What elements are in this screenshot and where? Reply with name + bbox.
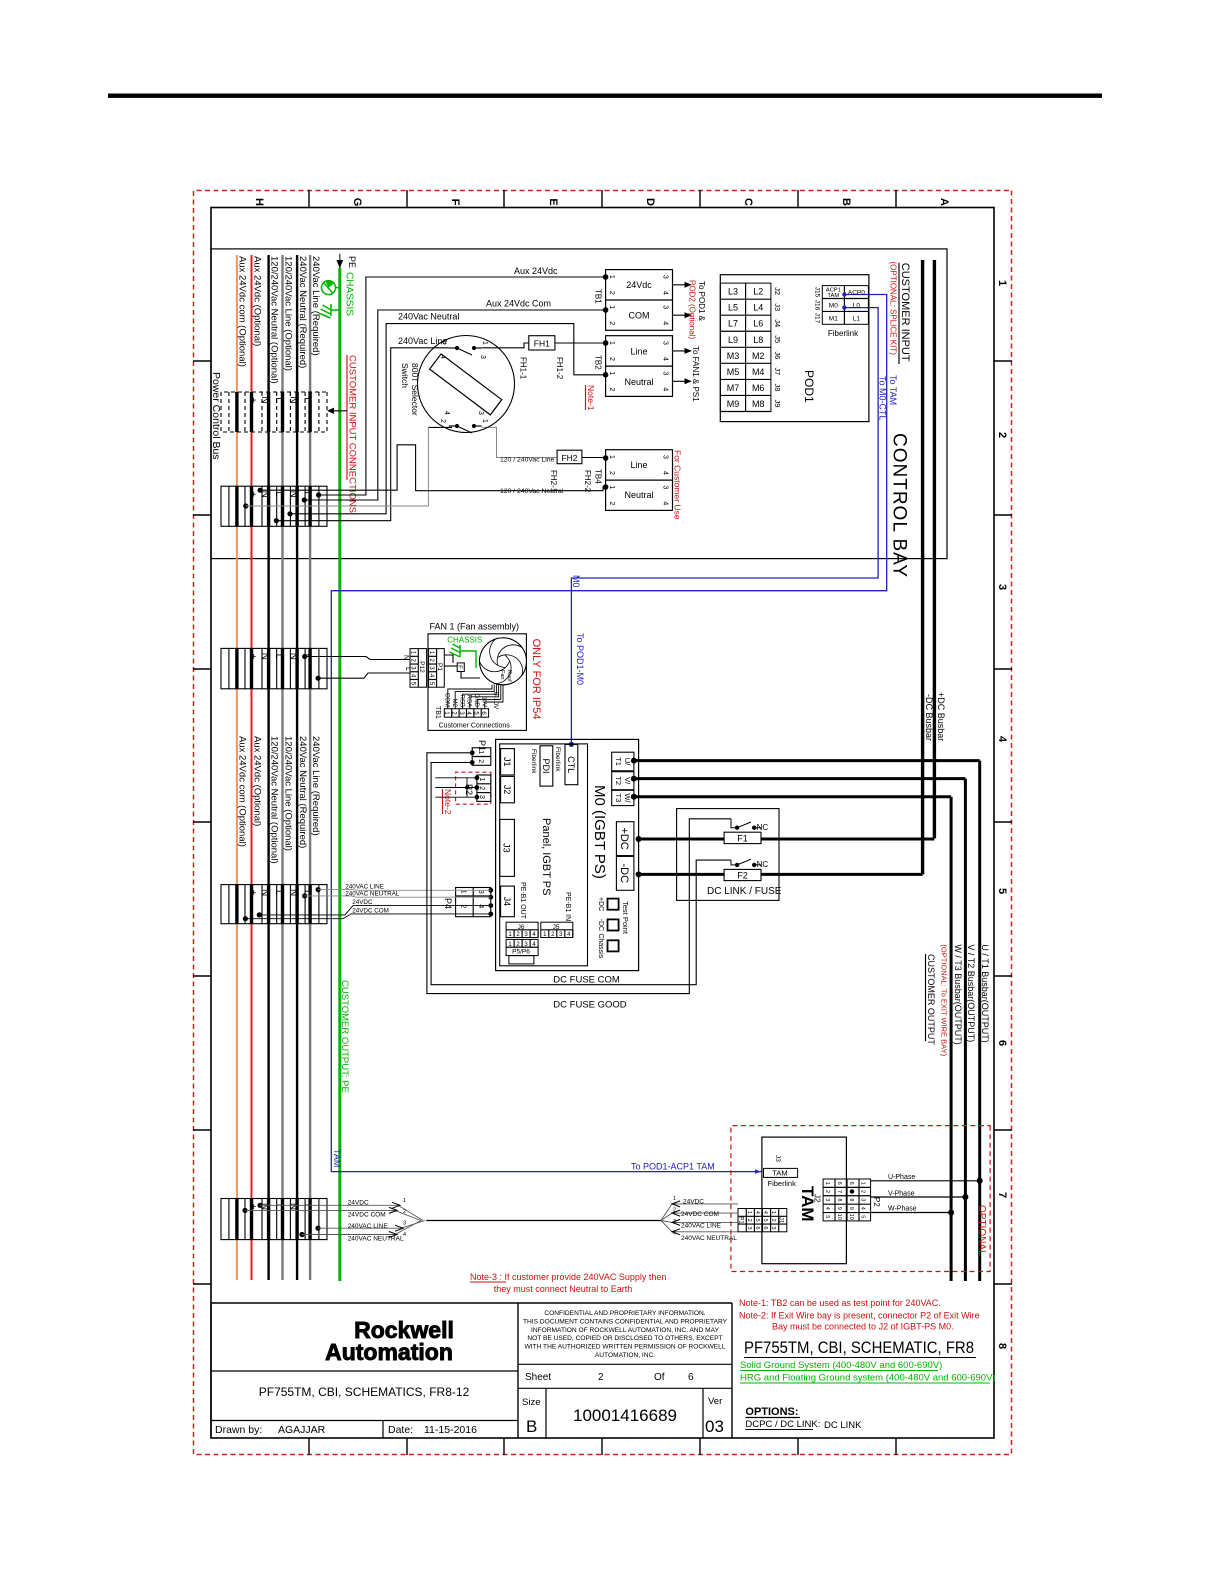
svg-text:0-10V: 0-10V: [492, 692, 499, 710]
svg-text:3: 3: [746, 1226, 752, 1229]
cable bundle wires from connector 5: [245, 1205, 425, 1234]
connector P4: [456, 888, 491, 917]
svg-text:Roof: Roof: [506, 670, 512, 682]
selector switch handle: [430, 354, 502, 415]
svg-text:Fiberlink: Fiberlink: [530, 749, 537, 774]
svg-text:24VDC COM: 24VDC COM: [352, 907, 389, 914]
connector block CB input taps: [221, 486, 327, 526]
sheet row: [518, 1363, 732, 1365]
svg-text:10: 10: [848, 1214, 854, 1220]
svg-text:Test Point: Test Point: [621, 901, 630, 935]
svg-text:INFORMATION OF ROCKWELL AUTOMA: INFORMATION OF ROCKWELL AUTOMATION, INC.…: [531, 1327, 720, 1334]
wire 240Vac Neutral to TB2: [290, 324, 606, 514]
connector block fan feed taps: [221, 648, 327, 688]
svg-text:B: B: [526, 1417, 537, 1436]
svg-text:J7: J7: [773, 367, 782, 375]
svg-text:M3: M3: [727, 351, 740, 361]
svg-text:3: 3: [662, 341, 669, 345]
fuse F1: [724, 832, 761, 843]
svg-text:4: 4: [754, 1211, 760, 1214]
connector J4: [501, 886, 515, 917]
svg-text:L4: L4: [753, 303, 763, 313]
POD1 ACP fiberlink table: [822, 286, 868, 325]
svg-text:4: 4: [477, 904, 484, 908]
zone ticks top/bottom: [994, 360, 1012, 362]
svg-text:2: 2: [824, 1190, 830, 1193]
connector PDI: [540, 746, 553, 786]
svg-text:7: 7: [996, 1192, 1008, 1198]
svg-text:Line: Line: [630, 347, 647, 357]
bus wire name labels (zone mid): [237, 736, 322, 864]
svg-text:1: 1: [770, 1211, 776, 1214]
wire 240Vac Line to switch to FH1 to TB2: [276, 348, 449, 521]
svg-text:240VAC NEUTRAL: 240VAC NEUTRAL: [348, 1235, 404, 1242]
svg-text:3: 3: [662, 305, 669, 309]
terminal block TB2: [606, 336, 673, 397]
svg-text:NC: NC: [757, 860, 769, 869]
svg-text:PE: PE: [347, 256, 357, 268]
svg-text:3: 3: [860, 1198, 866, 1201]
svg-text:3: 3: [477, 411, 484, 415]
P5/P6 pin table: [506, 939, 538, 947]
wire DC FUSE GOOD loop: [427, 753, 731, 994]
svg-text:J5: J5: [553, 924, 560, 931]
svg-text:CONFIDENTIAL AND PROPRIETARY I: CONFIDENTIAL AND PROPRIETARY INFORMATION…: [544, 1310, 705, 1317]
svg-text:2: 2: [608, 471, 615, 475]
svg-text:DC FUSE GOOD: DC FUSE GOOD: [553, 1000, 627, 1011]
svg-text:3: 3: [662, 371, 669, 375]
svg-text:2: 2: [996, 432, 1008, 438]
svg-text:J2: J2: [773, 287, 782, 295]
svg-text:2: 2: [439, 419, 446, 423]
svg-text:J2: J2: [813, 1194, 822, 1203]
NC aux contact F2: [731, 859, 761, 866]
P1/J1 pin table of TAM: [738, 1209, 787, 1232]
svg-text:240VAC LINE: 240VAC LINE: [681, 1223, 722, 1230]
svg-text:03: 03: [705, 1417, 724, 1436]
svg-text:TB2: TB2: [594, 355, 603, 370]
svg-text:FH1-2: FH1-2: [555, 357, 564, 380]
svg-text:ACP0: ACP0: [848, 290, 865, 297]
title block verticals: [517, 1303, 519, 1438]
svg-text:CONTROL BAY: CONTROL BAY: [889, 433, 910, 578]
svg-text:PE-B1 OUT: PE-B1 OUT: [519, 882, 526, 920]
svg-text:J6: J6: [518, 924, 525, 931]
svg-text:1: 1: [481, 419, 488, 423]
svg-text:J5: J5: [773, 335, 782, 343]
svg-text:Solid Ground System (400-480V: Solid Ground System (400-480V and 600-69…: [740, 1360, 942, 1371]
svg-text:Aux 24Vdc com (Optional): Aux 24Vdc com (Optional): [237, 736, 248, 847]
wire: 120/240Vac Line bus (gray): [281, 255, 283, 1280]
svg-text:P5/P6: P5/P6: [512, 949, 530, 956]
svg-text:L3: L3: [728, 287, 738, 297]
fuse holder FH2: [557, 450, 582, 464]
svg-text:4: 4: [662, 357, 669, 361]
svg-text:3: 3: [479, 355, 486, 359]
svg-text:To POD1-ACP1 TAM: To POD1-ACP1 TAM: [631, 1162, 715, 1172]
svg-text:J6: J6: [773, 351, 782, 359]
svg-text:6: 6: [996, 1040, 1008, 1046]
TAM box: [762, 1137, 847, 1264]
title block outer lines: [211, 1302, 732, 1304]
svg-text:2: 2: [746, 1219, 752, 1222]
svg-text:T2: T2: [614, 776, 623, 785]
svg-text:AUTOMATION, INC.: AUTOMATION, INC.: [595, 1352, 655, 1359]
svg-text:Date:: Date:: [388, 1424, 413, 1436]
svg-text:4: 4: [996, 736, 1008, 743]
svg-text:J15: J15: [814, 287, 821, 298]
svg-text:COM: COM: [629, 311, 650, 321]
svg-text:TAM: TAM: [827, 293, 839, 299]
svg-text:Of: Of: [654, 1372, 665, 1383]
svg-text:240VAC NEUTRAL: 240VAC NEUTRAL: [345, 891, 400, 898]
svg-text:120/240Vac Line (Optional): 120/240Vac Line (Optional): [283, 736, 294, 851]
svg-text:-DC: -DC: [618, 864, 630, 884]
test point squares +DC -DC Chassis: [608, 899, 619, 910]
fuse holder FH1: [529, 336, 555, 350]
svg-text:L2: L2: [753, 287, 763, 297]
svg-text:J16: J16: [814, 300, 821, 311]
svg-text:120/240Vac Neutral (Optional): 120/240Vac Neutral (Optional): [269, 736, 280, 864]
svg-text:L7: L7: [728, 319, 738, 329]
wire 120/240Vac Neutral to TB4: [260, 445, 606, 491]
svg-text:J9: J9: [773, 399, 782, 407]
svg-text:HRG and Floating Ground system: HRG and Floating Ground system (400-480V…: [740, 1373, 996, 1384]
svg-text:M0: M0: [571, 575, 581, 588]
svg-text:120 / 240Vac Line: 120 / 240Vac Line: [500, 457, 555, 464]
svg-text:3: 3: [770, 1226, 776, 1229]
svg-text:10001416689: 10001416689: [573, 1406, 677, 1425]
svg-text:F1: F1: [737, 834, 748, 844]
wire To M0-CTL (blue): [571, 308, 878, 745]
svg-text:V/: V/: [623, 777, 632, 785]
svg-text:4: 4: [662, 321, 669, 325]
svg-text:2: 2: [608, 291, 615, 295]
control bay enclosure box: [211, 249, 947, 559]
wire Aux 24Vdc Com to TB1-COM: [304, 310, 605, 500]
svg-text:1: 1: [608, 485, 615, 489]
svg-text:Note-1: TB2 can be used as tes: Note-1: TB2 can be used as test point fo…: [739, 1298, 941, 1308]
svg-text:Fiberlink: Fiberlink: [828, 329, 859, 338]
zone ticks left/right: [895, 190, 897, 208]
svg-text:8: 8: [836, 1198, 842, 1201]
connector P12/P1 strips: [410, 649, 427, 688]
svg-text:5: 5: [824, 1215, 830, 1218]
svg-text:TB1: TB1: [434, 706, 441, 719]
svg-text:3: 3: [824, 1198, 830, 1201]
terminal -DC: [616, 856, 634, 890]
svg-text:J1: J1: [778, 1217, 784, 1224]
svg-text:C: C: [742, 198, 754, 206]
svg-text:240VAC LINE: 240VAC LINE: [345, 884, 384, 891]
connector block TAM feed taps: [221, 1199, 327, 1240]
svg-text:120/240Vac Neutral (Optional): 120/240Vac Neutral (Optional): [269, 256, 280, 384]
svg-text:L: L: [404, 667, 411, 671]
svg-text:P1: P1: [436, 663, 443, 671]
output terminals U/T1 V/T2 W/T3: [612, 752, 634, 771]
svg-text:To M0-CTL: To M0-CTL: [878, 376, 888, 421]
svg-text:24VDC: 24VDC: [348, 1200, 369, 1207]
svg-text:Power Control Bus: Power Control Bus: [210, 372, 222, 460]
svg-text:PDI: PDI: [541, 758, 551, 773]
svg-text:Neutral: Neutral: [624, 377, 653, 387]
svg-text:+DC Busbar: +DC Busbar: [936, 692, 946, 741]
M0 IGBT PS outer box: [496, 739, 639, 970]
svg-text:240Vac Neutral (Required): 240Vac Neutral (Required): [297, 736, 308, 848]
svg-text:1: 1: [608, 371, 615, 375]
border: inner title frame: [211, 208, 994, 1439]
svg-text:J8: J8: [773, 383, 782, 391]
svg-text:3: 3: [673, 1219, 676, 1225]
svg-text:+DC: +DC: [618, 827, 630, 849]
svg-text:7: 7: [836, 1190, 842, 1193]
svg-text:L6: L6: [753, 319, 763, 329]
U/T1 busbar run: [634, 761, 980, 1281]
svg-text:CUSTOMER OUTPUT: PE: CUSTOMER OUTPUT: PE: [339, 980, 350, 1093]
connector P1 (M0 input): [472, 748, 491, 766]
svg-text:they must connect Neutral to E: they must connect Neutral to Earth: [494, 1284, 633, 1294]
svg-text:DC LINK: DC LINK: [824, 1420, 862, 1431]
svg-text:9: 9: [836, 1207, 842, 1210]
svg-text:CUSTOMER INPUT: CUSTOMER INPUT: [899, 263, 911, 362]
svg-text:Note-3 : If customer provide 2: Note-3 : If customer provide 240VAC Supp…: [470, 1272, 666, 1282]
svg-text:1: 1: [673, 1196, 676, 1202]
connector CTL: [565, 744, 578, 784]
+DC busbar: [933, 260, 936, 838]
svg-text:J3: J3: [773, 303, 782, 311]
svg-text:6: 6: [836, 1182, 842, 1185]
svg-text:Aux 24Vdc Com: Aux 24Vdc Com: [486, 299, 551, 309]
svg-text:J4: J4: [502, 897, 512, 907]
svg-text:1: 1: [403, 1198, 406, 1204]
svg-text:D: D: [644, 198, 656, 206]
svg-text:4: 4: [662, 291, 669, 295]
svg-text:COM: COM: [444, 693, 450, 707]
M0 inner panel box: [500, 744, 588, 966]
svg-text:DC FUSE COM: DC FUSE COM: [553, 975, 620, 986]
svg-text:-DC Busbar: -DC Busbar: [924, 694, 934, 741]
svg-text:To TAM: To TAM: [888, 375, 898, 405]
J2/P2 pin table of TAM: [823, 1179, 871, 1221]
svg-text:M0 (IGBT PS): M0 (IGBT PS): [591, 785, 608, 879]
svg-text:L1: L1: [853, 316, 861, 323]
-DC busbar: [921, 260, 924, 874]
svg-text:Bay must be connected to J2 of: Bay must be connected to J2 of IGBT-PS M…: [772, 1322, 954, 1332]
svg-text:1: 1: [608, 341, 615, 345]
page top rule line: [108, 94, 1102, 98]
svg-text:Chassis: Chassis: [597, 933, 604, 958]
svg-text:3: 3: [403, 1221, 406, 1227]
svg-text:To POD1 &: To POD1 &: [697, 281, 706, 322]
svg-text:Panel, IGBT PS: Panel, IGBT PS: [540, 818, 552, 895]
svg-text:M7: M7: [727, 383, 740, 393]
svg-text:Note-1: Note-1: [586, 385, 596, 411]
svg-text:Size: Size: [522, 1397, 540, 1408]
svg-text:POD1: POD1: [802, 370, 816, 403]
connector J3: [500, 819, 515, 876]
svg-text:2: 2: [477, 759, 484, 763]
svg-text:6: 6: [762, 1226, 768, 1229]
junction dots connector 4: [315, 887, 320, 892]
svg-text:GND: GND: [473, 694, 479, 708]
arrows out of TB1 / TB2 tops: [673, 284, 690, 286]
svg-text:For Customer Use: For Customer Use: [673, 450, 683, 520]
wires connector3 to fan P1: [305, 657, 410, 679]
svg-text:(OPTIONAL: To EXIT WIRE BAY): (OPTIONAL: To EXIT WIRE BAY): [940, 944, 949, 1056]
svg-text:DCPC / DC LINK:: DCPC / DC LINK:: [745, 1419, 820, 1430]
wire 120/240Vac Line from connector2 through switch FH2 to TB4: [428, 426, 452, 428]
svg-text:PF755TM, CBI, SCHEMATIC, FR8: PF755TM, CBI, SCHEMATIC, FR8: [744, 1339, 974, 1357]
svg-text:Neutral: Neutral: [624, 490, 653, 500]
svg-text:FH2: FH2: [561, 453, 577, 463]
svg-text:M1: M1: [829, 316, 838, 323]
svg-text:TB4: TB4: [594, 469, 603, 484]
svg-text:1: 1: [481, 341, 488, 345]
svg-text:B: B: [840, 198, 852, 206]
svg-text:+DC: +DC: [597, 897, 604, 911]
chevrons near TAM: [672, 1201, 680, 1235]
svg-text:FH2-2: FH2-2: [583, 470, 592, 493]
fan wires: [444, 655, 480, 678]
wire Aux 24Vdc to TB1-1: [319, 277, 606, 495]
svg-text:P2: P2: [872, 1197, 881, 1207]
svg-text:2: 2: [860, 1190, 866, 1193]
junction dots connector 5: [257, 1203, 262, 1208]
svg-text:4: 4: [824, 1207, 830, 1210]
svg-text:P4: P4: [443, 898, 453, 909]
fan fuse F: [457, 663, 464, 672]
svg-text:W/: W/: [623, 793, 632, 803]
wire: Aux 24Vdc com bus (orange): [236, 255, 238, 1280]
DC LINK / FUSE box: [677, 809, 779, 901]
svg-text:CTL: CTL: [566, 756, 576, 773]
svg-text:E: E: [547, 198, 559, 205]
svg-text:4: 4: [443, 411, 450, 415]
ver cell: [702, 1388, 704, 1438]
fan TB1 strip (customer connections): [444, 709, 488, 718]
svg-text:Fiberlink: Fiberlink: [554, 747, 561, 772]
svg-text:P1: P1: [738, 1216, 744, 1224]
phase wires U V W: [871, 1180, 978, 1182]
svg-text:CHASSIS: CHASSIS: [344, 272, 355, 316]
svg-text:L9: L9: [728, 335, 738, 345]
POD1 L/M jack table: [720, 283, 771, 411]
fan impeller symbol: [470, 628, 536, 690]
svg-text:FAN 1 (Fan assembly): FAN 1 (Fan assembly): [430, 622, 520, 632]
red dashed OPTIONAL enclosure: [731, 1126, 990, 1272]
svg-text:4: 4: [673, 1231, 676, 1237]
svg-text:6: 6: [688, 1372, 694, 1383]
svg-text:1: 1: [746, 1211, 752, 1214]
switch contacts left: [449, 346, 482, 355]
svg-text:Ver: Ver: [708, 1396, 722, 1407]
connector block P-bus dashed (customer input): [221, 392, 327, 432]
svg-text:F: F: [449, 199, 461, 206]
wires connector4 to P4: [305, 890, 491, 898]
POD1 enclosure: [720, 275, 869, 422]
svg-text:2: 2: [770, 1219, 776, 1222]
svg-text:Note-2: If Exit Wire bay is pr: Note-2: If Exit Wire bay is present, con…: [739, 1311, 980, 1321]
svg-text:M6: M6: [752, 383, 765, 393]
svg-text:G: G: [351, 198, 363, 207]
svg-text:F2: F2: [737, 871, 748, 881]
svg-text:240Vac Line: 240Vac Line: [398, 336, 447, 346]
svg-text:Aux 24Vdc (Optional): Aux 24Vdc (Optional): [252, 256, 263, 346]
svg-text:24VDC: 24VDC: [683, 1199, 704, 1206]
connector J1: [501, 749, 515, 775]
svg-text:J2: J2: [502, 785, 512, 795]
svg-text:Line: Line: [630, 460, 647, 470]
svg-text:TB1: TB1: [594, 289, 603, 304]
svg-text:TAM: TAM: [332, 1149, 342, 1167]
svg-text:1: 1: [824, 1182, 830, 1185]
svg-text:800T Selector: 800T Selector: [410, 363, 420, 416]
svg-text:M9: M9: [727, 399, 740, 409]
svg-text:POD2 (Optional): POD2 (Optional): [688, 280, 697, 339]
svg-text:4: 4: [860, 1207, 866, 1210]
svg-text:-DC: -DC: [597, 919, 604, 931]
svg-text:U-Phase: U-Phase: [888, 1174, 915, 1181]
svg-text:CUSTOMER INPUT CONNECTIONS: CUSTOMER INPUT CONNECTIONS: [347, 355, 358, 513]
svg-text:8: 8: [996, 1343, 1008, 1349]
chassis ground symbol (green): [319, 280, 340, 318]
bus wire name labels (zone G upper): [237, 256, 322, 384]
J6 pin table: [506, 922, 538, 937]
wire +DC to F1 to +DC busbar: [639, 838, 725, 841]
svg-text:L8: L8: [753, 335, 763, 345]
svg-text:24VDC COM: 24VDC COM: [348, 1211, 386, 1218]
svg-text:9: 9: [848, 1207, 854, 1210]
svg-text:Aux 24Vdc com (Optional): Aux 24Vdc com (Optional): [237, 256, 248, 367]
junction dots connector 3: [302, 654, 307, 659]
svg-text:M2: M2: [752, 351, 765, 361]
svg-text:T1: T1: [614, 757, 623, 766]
svg-text:1: 1: [860, 1182, 866, 1185]
svg-text:H: H: [253, 198, 265, 206]
svg-text:4: 4: [662, 471, 669, 475]
connector P2: [477, 775, 491, 801]
wire: chassis PE (green): [338, 268, 341, 1281]
zone numbers 1-8 (top band): [996, 280, 1008, 1349]
fuse F2: [724, 869, 761, 880]
svg-text:2: 2: [673, 1208, 676, 1214]
svg-text:Fiberlink: Fiberlink: [768, 1179, 797, 1188]
junction dots connector 2: [316, 492, 321, 497]
J5 pin table: [541, 922, 573, 937]
svg-text:2: 2: [403, 1209, 406, 1215]
svg-text:T3: T3: [614, 794, 623, 803]
svg-text:3: 3: [662, 455, 669, 459]
svg-text:120 / 240Vac Neutral: 120 / 240Vac Neutral: [500, 488, 564, 495]
svg-text:U/: U/: [623, 758, 632, 766]
svg-text:NOT BE USED, COPIED OR DISCLOS: NOT BE USED, COPIED OR DISCLOSED TO OTHE…: [527, 1335, 722, 1342]
svg-text:Switch: Switch: [400, 363, 410, 388]
wire -DC to F2 to -DC busbar: [639, 873, 725, 876]
svg-text:To POD1-M0: To POD1-M0: [575, 633, 585, 685]
svg-text:240Vac Neutral (Required): 240Vac Neutral (Required): [297, 256, 308, 368]
svg-text:6: 6: [754, 1226, 760, 1229]
svg-text:Fan: Fan: [499, 670, 505, 679]
terminal block TB1: [606, 270, 673, 331]
svg-text:3: 3: [662, 485, 669, 489]
bundle chevron arrowheads: [389, 1202, 403, 1237]
green chassis ground in fan box: [450, 644, 477, 668]
FAN 1 assembly box: [428, 634, 526, 731]
svg-text:6: 6: [848, 1182, 854, 1185]
svg-text:PE-B1 IN: PE-B1 IN: [564, 892, 571, 921]
svg-text:24Vdc: 24Vdc: [626, 280, 652, 290]
svg-text:L0: L0: [853, 303, 861, 310]
